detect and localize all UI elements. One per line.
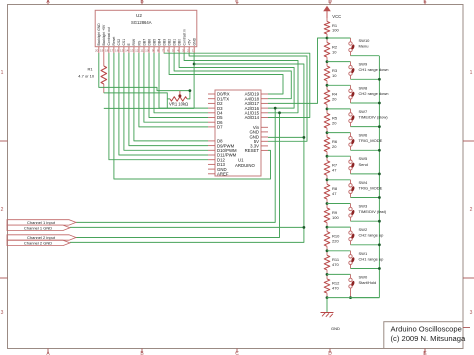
- svg-text:20: 20: [95, 49, 99, 53]
- wire ladder bottom to bus: [327, 297, 379, 299]
- svg-text:SG12864A: SG12864A: [131, 20, 152, 25]
- switch SW4 TRIG_MODE: [327, 180, 383, 199]
- svg-text:C: C: [235, 0, 239, 5]
- connector Channel 1 GND: [7, 225, 70, 230]
- wire U2 pin to D7: [139, 53, 208, 127]
- svg-text:Channel 1 GND: Channel 1 GND: [24, 225, 52, 230]
- resistor R1 100: [324, 18, 339, 38]
- wire bus pin18 to A1: [184, 53, 298, 113]
- U2 pin name labels: [97, 23, 196, 46]
- svg-text:15: 15: [120, 49, 124, 53]
- resistor R8 47: [324, 180, 338, 204]
- wire channel1 gnd: [70, 226, 305, 229]
- svg-text:10: 10: [332, 73, 337, 78]
- wire VR1 left to GND riser: [104, 99, 194, 109]
- potentiometer VR1 10k: [169, 91, 188, 107]
- svg-text:AREF: AREF: [217, 172, 229, 177]
- resistor R3 10: [324, 62, 338, 86]
- svg-text:SW1: SW1: [359, 251, 368, 256]
- svg-text:DB6: DB6: [147, 39, 151, 46]
- wire A2 junction to channel1 input: [76, 107, 277, 223]
- wire GND row: [268, 136, 304, 138]
- svg-text:Arduino Oscilloscope: Arduino Oscilloscope: [391, 325, 462, 334]
- ground symbol GND: [321, 298, 341, 331]
- svg-text:DB0: DB0: [177, 39, 181, 46]
- svg-text:CH2 range down: CH2 range down: [359, 91, 389, 96]
- svg-text:Contrast out: Contrast out: [107, 27, 111, 46]
- svg-text:3: 3: [470, 310, 473, 316]
- svg-text:DB7: DB7: [142, 39, 146, 46]
- svg-text:10: 10: [145, 49, 149, 53]
- svg-text:47: 47: [332, 191, 337, 196]
- svg-text:Backlight +5V: Backlight +5V: [102, 24, 106, 46]
- svg-text:SW4: SW4: [359, 180, 368, 185]
- svg-text:2: 2: [1, 207, 4, 213]
- wire GND bus line: [194, 64, 304, 137]
- svg-text:CH1 range up: CH1 range up: [359, 256, 385, 261]
- wire U2 pin to D12: [109, 53, 208, 160]
- wire bus pin15 to A5: [169, 53, 283, 94]
- svg-text:2: 2: [470, 207, 473, 213]
- wire RESET net U2 pin4 to U1 RESET: [114, 53, 271, 179]
- svg-text:20: 20: [332, 97, 337, 102]
- svg-text:DB4: DB4: [157, 39, 161, 46]
- switch SW3 TIME/DIV (fast): [327, 204, 387, 223]
- switch SW7 TIME/DIV (slow): [327, 109, 388, 128]
- svg-text:13: 13: [130, 49, 134, 53]
- U2 pin stubs and pin numbers: [95, 47, 194, 53]
- wire U2 pin to D11: [119, 53, 208, 155]
- svg-text:Channel 1 input: Channel 1 input: [27, 220, 56, 225]
- svg-text:CH2 range up: CH2 range up: [359, 233, 385, 238]
- svg-text:220: 220: [332, 238, 339, 243]
- resistor R4 20: [324, 85, 338, 109]
- svg-text:C: C: [235, 351, 239, 355]
- switch SW1 CH1 range up: [327, 251, 384, 270]
- svg-text:20: 20: [332, 144, 337, 149]
- svg-text:Start/Hold: Start/Hold: [359, 280, 377, 285]
- svg-text:CH1 range down: CH1 range down: [359, 67, 389, 72]
- svg-text:100: 100: [332, 27, 339, 32]
- svg-text:SW3: SW3: [359, 204, 368, 209]
- svg-text:Channel 2 GND: Channel 2 GND: [24, 241, 52, 246]
- wire VR1 wiper bus: [180, 89, 191, 99]
- switch SW0 Start/Hold: [327, 274, 379, 299]
- title block: [384, 322, 470, 355]
- svg-text:1: 1: [1, 70, 4, 76]
- VCC supply symbol: [323, 6, 341, 19]
- svg-text:11: 11: [140, 49, 143, 53]
- svg-text:VCC: VCC: [332, 14, 341, 19]
- svg-text:+5V: +5V: [187, 39, 191, 46]
- svg-text:U2: U2: [136, 13, 142, 18]
- Arduino U1: [215, 90, 261, 176]
- svg-text:D: D: [328, 351, 332, 355]
- ladder junction dots: [326, 37, 329, 299]
- svg-text:470: 470: [332, 262, 339, 267]
- svg-text:SW5: SW5: [359, 156, 368, 161]
- wire GND to channel grounds: [70, 136, 305, 242]
- wire A1 junction to channel2 input: [76, 111, 281, 237]
- svg-text:3: 3: [1, 310, 4, 316]
- svg-text:TIME/DIV (slow): TIME/DIV (slow): [359, 115, 389, 120]
- svg-text:TIME/DIV (fast): TIME/DIV (fast): [359, 209, 387, 214]
- connector Channel 2 input: [7, 235, 76, 240]
- svg-text:1: 1: [470, 70, 473, 76]
- svg-text:Backlight GND: Backlight GND: [97, 23, 101, 46]
- svg-text:RS: RS: [137, 40, 141, 45]
- resistor R5 20: [324, 109, 338, 133]
- switch SW5 Send: [327, 156, 381, 175]
- svg-text:47: 47: [332, 168, 337, 173]
- svg-text:100: 100: [332, 215, 339, 220]
- svg-text:Send: Send: [359, 162, 368, 167]
- wire U2 +5V pin19 to 5V: [189, 53, 307, 141]
- wire bus pin17 to A2: [179, 53, 294, 108]
- svg-text:Menu: Menu: [359, 44, 369, 49]
- wire backlight gnd pin1: [99, 53, 180, 91]
- svg-text:SW8: SW8: [359, 85, 368, 90]
- wire R1 to VR1 left: [104, 93, 170, 99]
- wire U2 pin to D8: [134, 53, 208, 141]
- resistor R10 220: [324, 227, 340, 251]
- svg-text:SW9: SW9: [359, 62, 368, 67]
- svg-text:Channel 2 input: Channel 2 input: [27, 235, 56, 240]
- svg-text:12: 12: [135, 49, 139, 53]
- resistor R12 470: [324, 274, 340, 297]
- connector Channel 1 input: [7, 220, 76, 225]
- svg-text:SW0: SW0: [359, 274, 368, 279]
- U1 left pin stubs and labels: [208, 92, 237, 177]
- svg-text:SW10: SW10: [359, 38, 371, 43]
- svg-text:Reset: Reset: [112, 37, 116, 46]
- svg-text:14: 14: [125, 49, 129, 53]
- svg-text:SW6: SW6: [359, 133, 368, 138]
- svg-text:19: 19: [100, 49, 104, 53]
- wire bus pin14 to A0: [164, 53, 310, 118]
- resistor R7 47: [324, 156, 338, 180]
- wire U2 pin to D9: [129, 53, 208, 146]
- U1 right pin stubs and labels: [245, 92, 268, 153]
- svg-text:Contrast in: Contrast in: [182, 29, 186, 46]
- svg-text:D7: D7: [217, 125, 223, 130]
- svg-text:U1: U1: [238, 158, 244, 163]
- svg-text:SW7: SW7: [359, 109, 368, 114]
- svg-text:DB1: DB1: [172, 39, 176, 46]
- svg-text:R/W: R/W: [132, 38, 136, 45]
- svg-text:10: 10: [332, 49, 337, 54]
- connector Channel 2 GND: [7, 240, 70, 245]
- svg-text:D: D: [328, 0, 332, 5]
- svg-text:TRIG_MODE: TRIG_MODE: [359, 185, 383, 190]
- wire A3 to ladder node: [268, 38, 327, 103]
- svg-text:GND: GND: [331, 326, 340, 331]
- svg-text:SW2: SW2: [359, 227, 368, 232]
- svg-text:16: 16: [115, 49, 119, 53]
- svg-text:(c) 2009 N. Mitsunaga: (c) 2009 N. Mitsunaga: [391, 334, 466, 343]
- switch SW6 TRIG_MODE: [327, 133, 383, 152]
- wire bus pin16 to A4: [174, 53, 291, 99]
- svg-text:R1: R1: [88, 66, 94, 71]
- svg-text:CS2: CS2: [117, 39, 121, 46]
- LCD module U2 SG12864A: [95, 10, 197, 46]
- wire U2 pin to D5: [149, 53, 208, 118]
- resistor R6 20: [324, 133, 338, 157]
- switch common bus: [378, 56, 380, 298]
- svg-text:VR1 10kΩ: VR1 10kΩ: [169, 102, 188, 107]
- svg-text:470: 470: [332, 286, 339, 291]
- switch SW2 CH2 range up: [327, 227, 384, 246]
- svg-text:TRIG_MODE: TRIG_MODE: [359, 138, 383, 143]
- svg-text:17: 17: [110, 49, 114, 53]
- svg-text:DB2: DB2: [167, 39, 171, 46]
- svg-text:ARDUINO: ARDUINO: [235, 163, 255, 168]
- switch SW9 CH1 range down: [327, 62, 389, 81]
- svg-text:A0/D14: A0/D14: [245, 115, 260, 120]
- svg-text:GND: GND: [192, 37, 196, 45]
- resistor R9 100: [324, 204, 339, 228]
- svg-text:DB5: DB5: [152, 39, 156, 46]
- resistor R2 10: [324, 38, 338, 62]
- svg-text:4.7 or 10: 4.7 or 10: [78, 73, 95, 78]
- wire U2 pin to D10: [124, 53, 208, 150]
- wire U2 GND pin20 down: [193, 53, 196, 108]
- wire U2 pin to D3: [159, 53, 208, 108]
- switch SW8 CH2 range down: [327, 85, 389, 104]
- svg-text:RESET: RESET: [245, 148, 260, 153]
- svg-text:20: 20: [332, 120, 337, 125]
- svg-text:CS1: CS1: [122, 39, 126, 46]
- wire U2 pin to D4: [154, 53, 208, 113]
- svg-text:18: 18: [105, 49, 109, 53]
- resistor R1 4.7 or 10: [78, 53, 106, 93]
- switch SW10 Menu: [327, 38, 379, 56]
- wire U2 pin to D6: [144, 53, 208, 122]
- resistor R11 470: [324, 251, 340, 275]
- svg-text:DB3: DB3: [162, 39, 166, 46]
